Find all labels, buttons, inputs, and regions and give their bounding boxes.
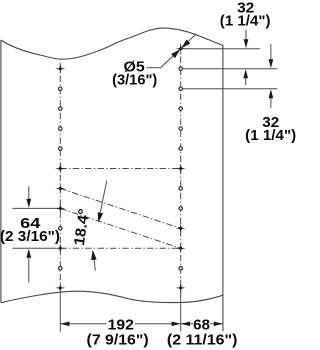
svg-text:(2 11/16"): (2 11/16") (167, 333, 238, 349)
svg-text:(7 9/16"): (7 9/16") (87, 333, 149, 349)
svg-text:(2 3/16"): (2 3/16") (0, 229, 60, 245)
svg-text:68: 68 (193, 317, 210, 333)
svg-text:(1 1/4"): (1 1/4") (245, 128, 296, 144)
svg-text:192: 192 (108, 317, 134, 333)
svg-text:(3/16"): (3/16") (112, 73, 157, 89)
svg-text:(1 1/4"): (1 1/4") (220, 14, 271, 30)
